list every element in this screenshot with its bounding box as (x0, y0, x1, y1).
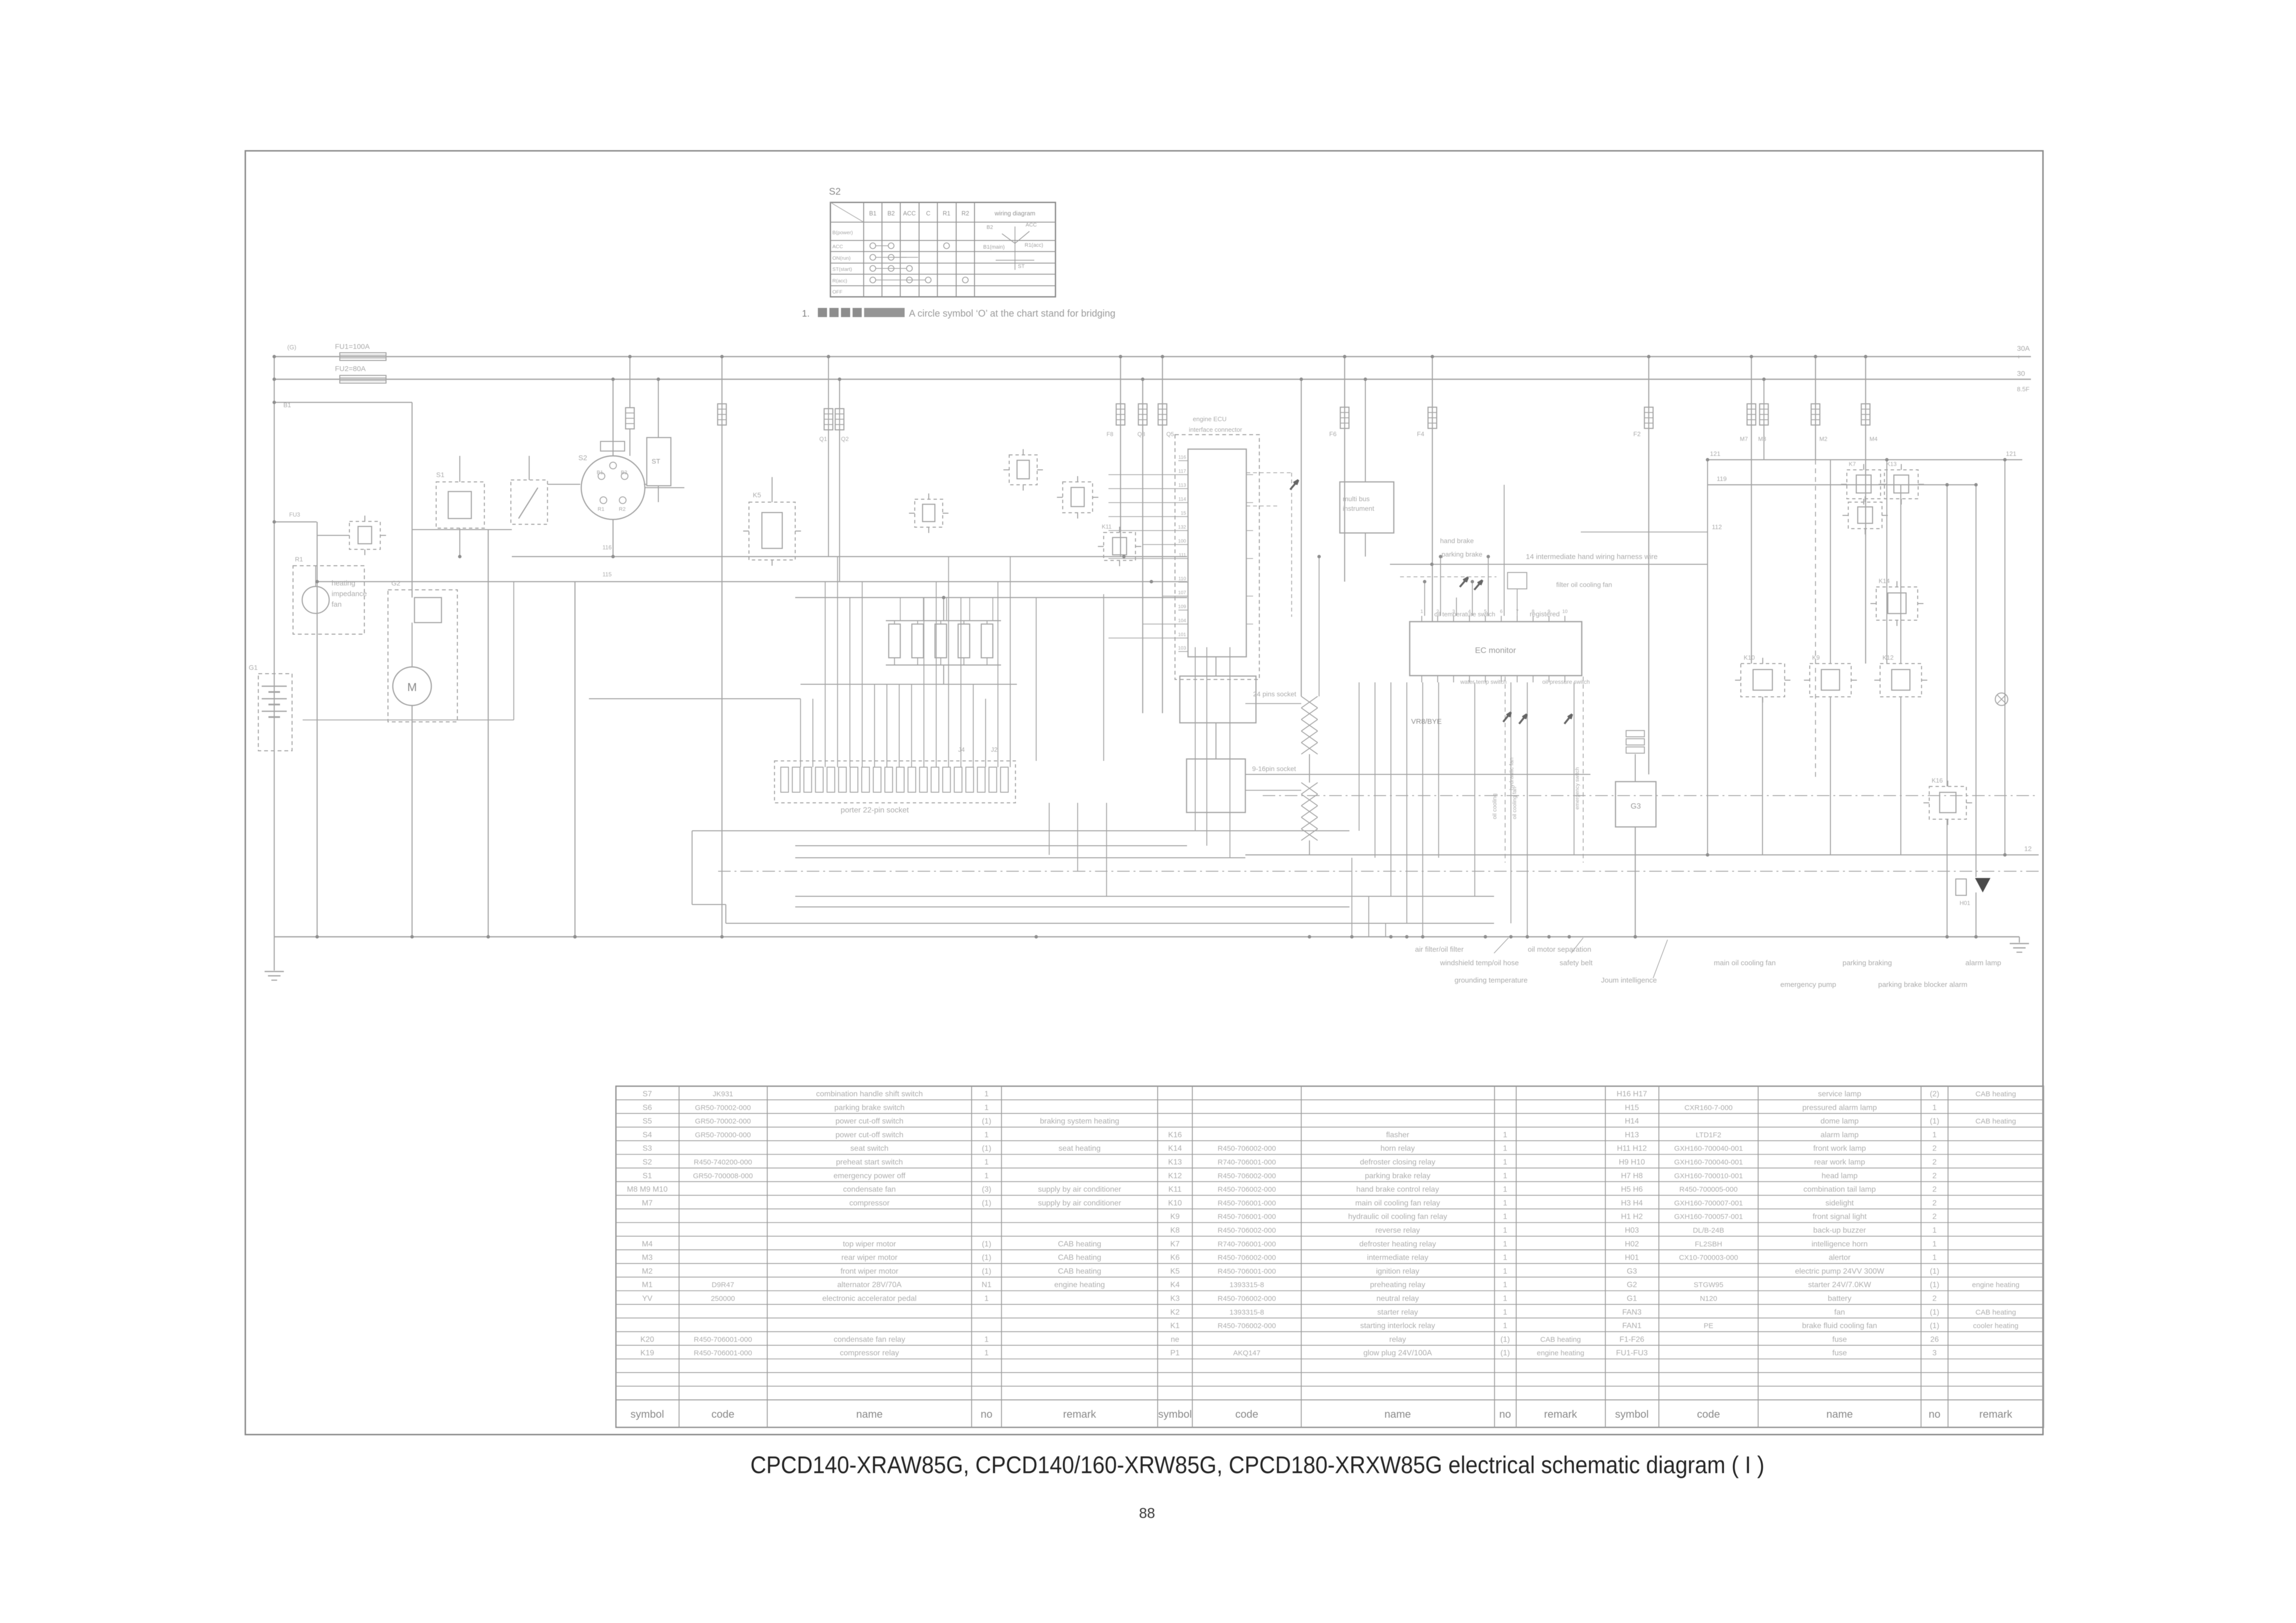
svg-text:1: 1 (1933, 1254, 1937, 1262)
wire (644, 484, 647, 485)
svg-text:G2: G2 (1627, 1281, 1637, 1289)
junction dots misc (1122, 555, 1125, 558)
svg-text:Joum intelligence: Joum intelligence (1601, 976, 1657, 984)
relay K12 (1880, 664, 1922, 697)
svg-text:engine heating: engine heating (1537, 1349, 1584, 1357)
svg-text:S1: S1 (436, 471, 444, 479)
svg-text:Q1: Q1 (819, 436, 827, 442)
svg-text:9-16pin socket: 9-16pin socket (1252, 765, 1296, 772)
svg-text:1: 1 (985, 1090, 989, 1098)
svg-text:K16: K16 (1932, 777, 1943, 784)
svg-text:CAB heating: CAB heating (1976, 1090, 2016, 1098)
svg-text:H02: H02 (1625, 1240, 1639, 1248)
meter block dashed enclosure (1175, 435, 1259, 679)
EC monitor pins top (1421, 616, 1422, 622)
svg-text:H01: H01 (1960, 900, 1970, 906)
svg-text:103: 103 (1178, 646, 1186, 651)
svg-text:H3 H4: H3 H4 (1621, 1199, 1642, 1207)
svg-text:LTD1F2: LTD1F2 (1695, 1131, 1721, 1139)
svg-text:K1: K1 (1170, 1322, 1180, 1330)
EC monitor pins bottom (1421, 676, 1422, 682)
switch S1 cluster (436, 482, 484, 528)
svg-text:H5 H6: H5 H6 (1621, 1185, 1642, 1194)
svg-text:service lamp: service lamp (1818, 1090, 1861, 1098)
svg-text:rear work lamp: rear work lamp (1814, 1158, 1865, 1167)
svg-text:(2): (2) (1930, 1090, 1939, 1098)
svg-text:1: 1 (985, 1172, 989, 1180)
svg-text:121: 121 (2006, 450, 2016, 457)
svg-text:2: 2 (1933, 1199, 1937, 1207)
fuse F2 (1648, 357, 1649, 774)
svg-text:121: 121 (1710, 450, 1721, 457)
svg-text:Q2: Q2 (841, 436, 849, 442)
svg-text:reverse relay: reverse relay (1375, 1226, 1420, 1235)
transformer winding lower (1301, 783, 1318, 794)
svg-text:109: 109 (1178, 604, 1186, 610)
svg-text:M2: M2 (642, 1267, 653, 1276)
wire left rail 3543 (1707, 460, 1708, 855)
svg-text:1: 1 (985, 1158, 989, 1167)
svg-text:H01: H01 (1625, 1254, 1639, 1262)
svg-text:CAB heating: CAB heating (1058, 1267, 1101, 1276)
svg-text:K11: K11 (1168, 1185, 1181, 1194)
svg-text:CAB heating: CAB heating (1976, 1117, 2016, 1126)
svg-text:S5: S5 (642, 1117, 652, 1126)
svg-text:registered: registered (1530, 610, 1560, 618)
svg-text:rear wiper motor: rear wiper motor (841, 1254, 898, 1262)
svg-text:2: 2 (1933, 1144, 1937, 1153)
svg-text:starting interlock relay: starting interlock relay (1360, 1322, 1435, 1330)
svg-text:1.: 1. (802, 309, 810, 319)
svg-text:M3: M3 (1758, 436, 1766, 442)
svg-text:111: 111 (1179, 553, 1187, 558)
svg-text:1: 1 (1503, 1199, 1508, 1207)
wire trunk 1171 (1390, 564, 1708, 565)
svg-text:STGW95: STGW95 (1694, 1281, 1723, 1289)
svg-text:115: 115 (602, 571, 612, 578)
svg-text:1: 1 (1503, 1240, 1508, 1248)
svg-text:M1: M1 (642, 1281, 653, 1289)
svg-text:1: 1 (1503, 1308, 1508, 1317)
svg-text:N120: N120 (1700, 1295, 1717, 1303)
svg-text:(1): (1) (982, 1117, 991, 1126)
relay K14 horn (1876, 587, 1918, 620)
svg-text:CXR160-7-000: CXR160-7-000 (1684, 1104, 1733, 1112)
svg-text:remark: remark (1544, 1408, 1577, 1420)
svg-text:1: 1 (985, 1335, 989, 1344)
svg-text:PE: PE (1704, 1322, 1713, 1330)
svg-text:H15: H15 (1625, 1104, 1639, 1112)
svg-text:R450-706002-000: R450-706002-000 (1218, 1172, 1276, 1180)
svg-text:D9R47: D9R47 (712, 1281, 734, 1289)
svg-text:R450-706002-000: R450-706002-000 (1218, 1254, 1276, 1262)
arrow sensor (1290, 480, 1298, 490)
svg-text:G3: G3 (1627, 1267, 1637, 1276)
svg-text:K14: K14 (1879, 577, 1890, 585)
key bracket above S2 (601, 441, 625, 451)
switch S4a (511, 480, 547, 524)
fuse F6 (1344, 357, 1345, 582)
svg-text:C: C (926, 210, 930, 217)
svg-text:M4: M4 (1869, 436, 1878, 442)
svg-text:1: 1 (1933, 1131, 1937, 1139)
svg-text:R450-706002-000: R450-706002-000 (1218, 1322, 1276, 1330)
socket 16pin (1187, 759, 1245, 812)
svg-text:2: 2 (1933, 1213, 1937, 1221)
svg-text:front work lamp: front work lamp (1813, 1144, 1866, 1153)
svg-text:(1): (1) (1930, 1322, 1939, 1330)
svg-text:(1): (1) (1930, 1267, 1939, 1276)
svg-text:main oil cooling fan relay: main oil cooling fan relay (1355, 1199, 1440, 1207)
svg-text:K5: K5 (753, 491, 761, 499)
svg-text:R2: R2 (619, 506, 626, 512)
wire (1886, 460, 1887, 664)
svg-text:M3: M3 (642, 1254, 653, 1262)
svg-text:FL2SBH: FL2SBH (1695, 1240, 1722, 1248)
svg-text:K12: K12 (1882, 654, 1894, 661)
svg-text:horn relay: horn relay (1380, 1144, 1415, 1153)
svg-text:S4: S4 (642, 1131, 652, 1139)
lamp H13 (1995, 693, 2008, 705)
svg-text:H16 H17: H16 H17 (1616, 1090, 1647, 1098)
svg-text:(1): (1) (982, 1254, 991, 1262)
svg-text:oil temperature switch: oil temperature switch (1434, 611, 1495, 618)
svg-text:main oil cooling fan: main oil cooling fan (1714, 959, 1775, 967)
svg-text:engine heating: engine heating (1972, 1281, 2019, 1289)
wire 1607 (1245, 774, 1590, 775)
svg-text:multi bus: multi bus (1343, 495, 1370, 503)
dashed wire to sensor (1246, 472, 1292, 473)
svg-text:oil motor separation: oil motor separation (1528, 945, 1591, 954)
relay K18 (349, 521, 380, 549)
svg-text:JK931: JK931 (713, 1090, 734, 1098)
svg-text:ignition relay: ignition relay (1376, 1267, 1419, 1276)
ground bus (274, 936, 2019, 937)
transformer winding upper (1301, 696, 1318, 708)
fuse F8 (1120, 357, 1121, 557)
svg-text:8.5F: 8.5F (2017, 386, 2029, 393)
svg-text:F6: F6 (1329, 430, 1336, 438)
svg-text:B2: B2 (887, 210, 894, 217)
svg-text:R740-706001-000: R740-706001-000 (1218, 1240, 1276, 1248)
svg-text:FU2=80A: FU2=80A (335, 365, 366, 373)
svg-text:K16: K16 (1168, 1131, 1182, 1139)
svg-text:brake fluid cooling fan: brake fluid cooling fan (1802, 1322, 1877, 1330)
svg-text:defroster heating relay: defroster heating relay (1359, 1240, 1436, 1248)
wire (943, 598, 944, 621)
EC monitor feeds bottom (1359, 682, 1360, 831)
svg-text:head lamp: head lamp (1822, 1172, 1858, 1180)
svg-text:emergency switch: emergency switch (1575, 767, 1580, 810)
svg-text:heating: heating (332, 579, 355, 587)
wire 119 (1708, 484, 1976, 485)
starter G2 box (388, 590, 457, 722)
svg-text:name: name (1384, 1408, 1411, 1420)
svg-text:2: 2 (1933, 1185, 1937, 1194)
svg-text:J4: J4 (958, 746, 965, 753)
svg-text:M2: M2 (1819, 436, 1828, 442)
svg-text:condensate fan: condensate fan (843, 1185, 895, 1194)
svg-text:seat heating: seat heating (1058, 1144, 1100, 1153)
svg-text:electronic accelerator pedal: electronic accelerator pedal (822, 1295, 917, 1303)
svg-text:name: name (856, 1408, 882, 1420)
svg-text:parking brake switch: parking brake switch (834, 1104, 905, 1112)
svg-text:F4: F4 (1417, 430, 1424, 438)
svg-text:1: 1 (1503, 1213, 1508, 1221)
svg-text:GR50-70000-000: GR50-70000-000 (695, 1131, 751, 1139)
svg-text:R450-706001-000: R450-706001-000 (1218, 1267, 1276, 1276)
wire (459, 528, 460, 557)
wire (613, 379, 614, 456)
junction dots on ground bus (573, 935, 576, 938)
cab harness dash-dot line (718, 871, 2039, 872)
wire (1385, 923, 1386, 937)
svg-text:symbol: symbol (1615, 1408, 1649, 1420)
starter motor G2 (393, 667, 431, 705)
svg-text:(1): (1) (982, 1240, 991, 1248)
svg-text:alertor: alertor (1829, 1254, 1851, 1262)
svg-text:G1: G1 (1627, 1295, 1637, 1303)
svg-text:B1: B1 (597, 470, 603, 476)
svg-text:GXH160-700057-001: GXH160-700057-001 (1674, 1213, 1743, 1221)
svg-text:air filter/oil filter: air filter/oil filter (1415, 945, 1464, 954)
svg-text:R450-706001-000: R450-706001-000 (694, 1335, 752, 1344)
svg-text:F2: F2 (1633, 430, 1641, 438)
wire (315, 566, 316, 586)
wire 1420 rail (801, 684, 1017, 685)
svg-text:B1(main): B1(main) (983, 244, 1005, 250)
svg-text:oil cooling fan: oil cooling fan (1512, 787, 1518, 819)
relay K2 stacked (1848, 502, 1882, 529)
wire 1450 (589, 698, 801, 699)
relay K11 (1104, 532, 1135, 560)
svg-text:emergency power off: emergency power off (833, 1172, 906, 1180)
resistor bank rails (886, 620, 1001, 621)
svg-text:(1): (1) (982, 1144, 991, 1153)
svg-text:cooler heating: cooler heating (1973, 1322, 2018, 1330)
svg-text:intermediate relay: intermediate relay (1367, 1254, 1428, 1262)
wire (513, 582, 514, 720)
svg-text:107: 107 (1178, 590, 1186, 596)
svg-text:K19: K19 (641, 1349, 654, 1357)
solenoid stack (1626, 731, 1644, 737)
leader lines (1494, 938, 1508, 953)
svg-text:S2: S2 (642, 1158, 652, 1167)
svg-text:H9 H10: H9 H10 (1619, 1158, 1645, 1167)
svg-text:water temp switch: water temp switch (1460, 678, 1507, 685)
wire 1882 (795, 906, 1349, 907)
svg-text:supply by air conditioner: supply by air conditioner (1038, 1185, 1121, 1194)
svg-text:oil cooling: oil cooling (1491, 794, 1498, 819)
svg-text:EC monitor: EC monitor (1475, 646, 1516, 655)
svg-text:defroster closing relay: defroster closing relay (1360, 1158, 1436, 1167)
wire (1947, 485, 1948, 786)
svg-text:compressor relay: compressor relay (840, 1349, 899, 1357)
svg-text:K10: K10 (1168, 1199, 1182, 1207)
svg-text:(1): (1) (1930, 1308, 1939, 1317)
svg-text:S2: S2 (578, 454, 587, 462)
fuse F11 (1162, 357, 1163, 713)
svg-text:pressured alarm lamp: pressured alarm lamp (1802, 1104, 1877, 1112)
ground symbol right end (2019, 937, 2020, 943)
battery G1 (258, 674, 292, 751)
VR potentiometer arrows (1503, 712, 1511, 722)
svg-text:2: 2 (1933, 1158, 1937, 1167)
relay bottoms to bus (1762, 697, 1763, 855)
relay K13 (1884, 470, 1918, 499)
border frame (245, 151, 2043, 1435)
svg-text:(3): (3) (982, 1185, 991, 1194)
dashed stub (1400, 576, 1496, 577)
svg-text:electric pump 24VV 300W: electric pump 24VV 300W (1795, 1267, 1885, 1276)
svg-text:fuse: fuse (1832, 1349, 1847, 1357)
svg-text:M8 M9 M10: M8 M9 M10 (627, 1185, 668, 1194)
alertor H01 (1956, 879, 1966, 895)
svg-text:hand brake: hand brake (1440, 537, 1474, 545)
svg-text:S7: S7 (642, 1090, 652, 1098)
svg-text:2: 2 (1933, 1295, 1937, 1303)
svg-text:N1: N1 (982, 1281, 992, 1289)
svg-text:relay: relay (1389, 1335, 1406, 1344)
svg-text:ACC: ACC (1026, 222, 1037, 228)
svg-text:back-up buzzer: back-up buzzer (1813, 1226, 1866, 1235)
svg-text:GXH160-700040-001: GXH160-700040-001 (1674, 1144, 1743, 1153)
svg-text:R450-706001-000: R450-706001-000 (1218, 1213, 1276, 1221)
svg-text:no: no (981, 1408, 992, 1420)
svg-text:ST: ST (652, 457, 660, 465)
svg-text:windshield temp/oil hose: windshield temp/oil hose (1440, 959, 1519, 967)
svg-text:3: 3 (1933, 1349, 1937, 1357)
ignition switch S2 circle (581, 456, 645, 519)
svg-text:remark: remark (1979, 1408, 2013, 1420)
fuse pair Q1 Q2 (828, 357, 829, 557)
wire (1036, 598, 1037, 761)
svg-text:116: 116 (1178, 455, 1186, 460)
wire K5 feed (772, 477, 773, 502)
svg-text:S3: S3 (642, 1144, 652, 1153)
wire 112 (1581, 532, 1708, 532)
svg-text:combination handle shift switc: combination handle shift switch (816, 1090, 922, 1098)
svg-text:116: 116 (602, 544, 612, 551)
svg-text:combination tail lamp: combination tail lamp (1803, 1185, 1876, 1194)
svg-text:110: 110 (1178, 576, 1186, 582)
svg-text:CPCD140-XRAW85G, CPCD140/160-X: CPCD140-XRAW85G, CPCD140/160-XRW85G, CPC… (750, 1451, 1764, 1478)
svg-text:K13: K13 (1168, 1158, 1182, 1167)
svg-text:preheat start switch: preheat start switch (836, 1158, 903, 1167)
svg-text:filter oil cooling fan: filter oil cooling fan (1556, 581, 1612, 588)
svg-text:no: no (1499, 1408, 1511, 1420)
svg-text:battery: battery (1828, 1295, 1852, 1303)
fuse F9 (1142, 379, 1143, 713)
wire 1780 (795, 857, 1245, 858)
wire (1245, 703, 1301, 704)
svg-text:+: + (2017, 353, 2021, 360)
svg-text:R450-740200-000: R450-740200-000 (694, 1158, 752, 1167)
svg-text:S6: S6 (642, 1104, 652, 1112)
wire (1368, 896, 1369, 937)
svg-text:M4: M4 (642, 1240, 653, 1248)
svg-text:6: 6 (1500, 609, 1503, 614)
svg-text:Q3: Q3 (1137, 431, 1145, 438)
svg-text:ST(start): ST(start) (832, 266, 852, 272)
dashed vertical (1815, 460, 1816, 778)
svg-text:name: name (1826, 1408, 1853, 1420)
svg-text:B(power): B(power) (832, 230, 853, 236)
porter 22-pin socket (774, 761, 1015, 803)
svg-text:starter relay: starter relay (1377, 1308, 1418, 1317)
svg-text:front wiper motor: front wiper motor (841, 1267, 899, 1276)
svg-text:code: code (1697, 1408, 1720, 1420)
svg-text:K8: K8 (1170, 1226, 1180, 1235)
multi bus instrument box (1340, 482, 1394, 533)
svg-text:GXH160-700040-001: GXH160-700040-001 (1674, 1158, 1743, 1167)
svg-text:G2: G2 (391, 579, 400, 587)
svg-text:R2: R2 (961, 210, 969, 217)
svg-text:FU3: FU3 (289, 511, 300, 518)
svg-text:30A: 30A (2017, 345, 2030, 353)
wire trunk 1240 (795, 597, 1187, 598)
svg-text:parking brake blocker alarm: parking brake blocker alarm (1878, 981, 1967, 989)
svg-text:A circle symbol ‘O’ at the cha: A circle symbol ‘O’ at the chart stand f… (909, 308, 1115, 319)
relay box K5 (749, 502, 795, 560)
svg-text:K20: K20 (641, 1335, 654, 1344)
wire (1049, 803, 1050, 855)
switch S4 box (647, 438, 671, 486)
meter pins (1178, 460, 1188, 461)
svg-text:ACC: ACC (832, 244, 843, 250)
wire (1077, 803, 1078, 871)
svg-text:1: 1 (1503, 1267, 1508, 1276)
wire vertical 1193 (574, 582, 575, 937)
relay K3 (1063, 482, 1093, 513)
svg-text:H03: H03 (1625, 1226, 1639, 1235)
svg-text:K6: K6 (1170, 1254, 1180, 1262)
svg-text:117: 117 (1178, 469, 1186, 474)
svg-text:CAB heating: CAB heating (1058, 1240, 1101, 1248)
svg-text:1: 1 (1933, 1240, 1937, 1248)
svg-text:ON(run): ON(run) (832, 255, 851, 261)
meter block (1188, 449, 1246, 657)
svg-text:112: 112 (1712, 523, 1722, 531)
wire trunk 1207 (317, 581, 1187, 582)
svg-text:seat switch: seat switch (850, 1144, 888, 1153)
svg-text:88: 88 (1139, 1505, 1155, 1521)
svg-text:GXH160-700010-001: GXH160-700010-001 (1674, 1172, 1743, 1180)
svg-text:J2: J2 (991, 746, 998, 753)
oil temp switch symbol (1508, 572, 1527, 589)
wire battery rail (274, 357, 275, 971)
svg-text:F8: F8 (1107, 431, 1113, 438)
EC monitor block (1410, 622, 1582, 676)
bus 30A top (274, 356, 2031, 357)
svg-text:10: 10 (1562, 609, 1568, 614)
svg-text:1393315-8: 1393315-8 (1229, 1308, 1264, 1317)
svg-text:(1): (1) (1930, 1281, 1939, 1289)
svg-text:ACC: ACC (903, 210, 916, 217)
wire (2004, 460, 2005, 855)
wire 1755 (795, 845, 1187, 846)
svg-text:132: 132 (1178, 525, 1186, 530)
svg-text:M: M (407, 681, 417, 694)
svg-text:104: 104 (1178, 618, 1186, 624)
svg-text:fan: fan (1834, 1308, 1845, 1317)
svg-text:1: 1 (1420, 609, 1423, 614)
svg-text:neutral relay: neutral relay (1376, 1295, 1419, 1303)
svg-text:1: 1 (985, 1131, 989, 1139)
wire (1976, 485, 1976, 877)
svg-text:(1): (1) (1500, 1335, 1510, 1344)
svg-text:wiring diagram: wiring diagram (994, 210, 1036, 217)
